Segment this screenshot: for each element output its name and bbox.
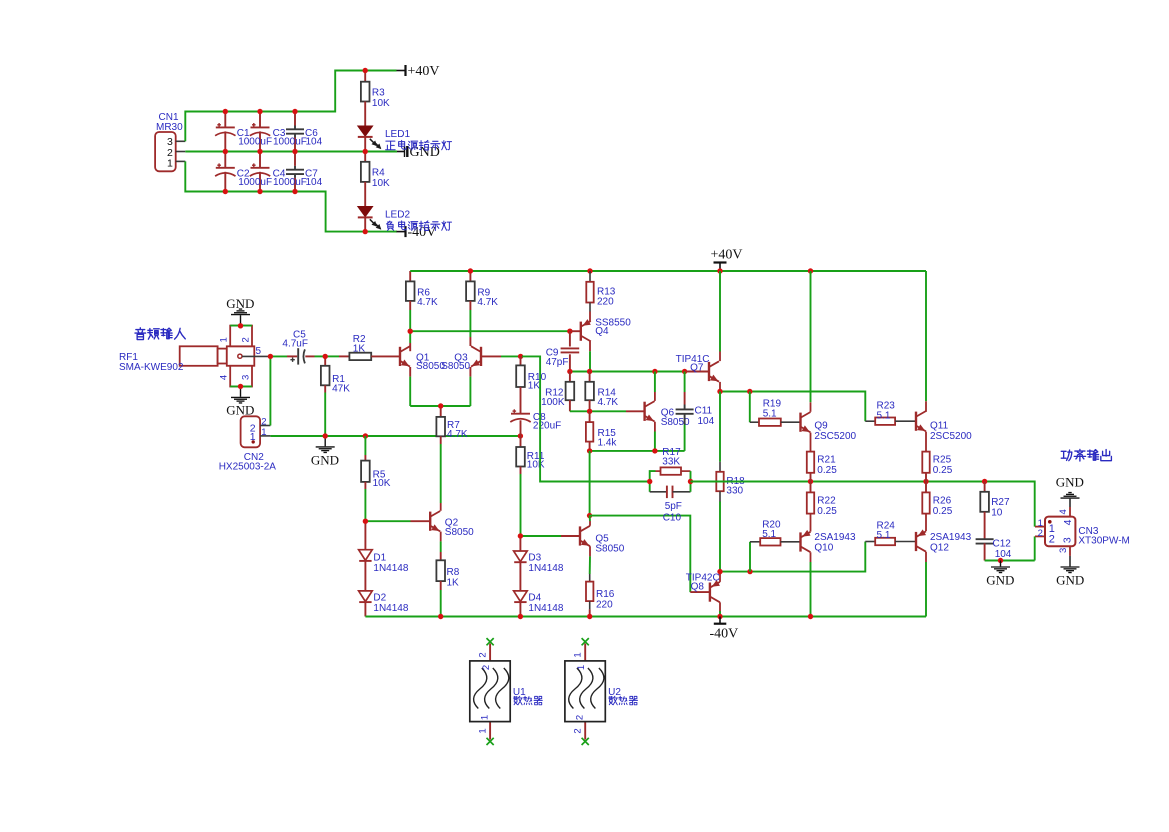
svg-text:4.7K: 4.7K [477, 297, 498, 308]
svg-text:D3: D3 [528, 552, 541, 563]
svg-text:XT30PW-M: XT30PW-M [1078, 536, 1130, 547]
svg-text:4: 4 [219, 375, 230, 380]
svg-text:0.25: 0.25 [817, 465, 837, 476]
svg-text:2SA1943: 2SA1943 [930, 532, 972, 543]
svg-text:5.1: 5.1 [762, 529, 776, 540]
svg-text:1.4k: 1.4k [598, 437, 618, 448]
svg-text:104: 104 [306, 177, 323, 188]
svg-text:0.25: 0.25 [817, 506, 837, 517]
svg-text:LED2: LED2 [385, 210, 410, 221]
svg-text:1K: 1K [447, 577, 460, 588]
svg-text:C11: C11 [695, 405, 713, 416]
svg-text:3: 3 [1061, 537, 1073, 543]
svg-text:2: 2 [573, 728, 584, 733]
svg-text:5.1: 5.1 [877, 410, 891, 421]
svg-text:2: 2 [241, 337, 252, 342]
svg-text:220: 220 [597, 296, 614, 307]
svg-text:HX25003-2A: HX25003-2A [219, 462, 277, 473]
svg-text:330: 330 [726, 486, 743, 497]
svg-text:1N4148: 1N4148 [528, 603, 563, 614]
svg-text:GND: GND [986, 573, 1014, 588]
svg-text:1: 1 [480, 715, 491, 720]
svg-text:S8050: S8050 [441, 361, 470, 372]
svg-text:1N4148: 1N4148 [373, 563, 408, 574]
svg-text:1: 1 [167, 158, 173, 170]
svg-text:D4: D4 [528, 592, 541, 603]
svg-text:C10: C10 [663, 512, 682, 523]
svg-text:10K: 10K [372, 98, 390, 109]
svg-text:Q7: Q7 [690, 362, 704, 373]
svg-text:1000uF: 1000uF [273, 177, 307, 188]
svg-text:0.25: 0.25 [933, 506, 953, 517]
svg-text:3: 3 [1058, 548, 1069, 553]
svg-text:104: 104 [698, 416, 715, 427]
svg-text:Q11: Q11 [930, 420, 949, 431]
svg-text:R25: R25 [933, 455, 952, 466]
svg-text:4.7uF: 4.7uF [282, 338, 308, 349]
svg-text:2: 2 [481, 665, 492, 670]
svg-text:R22: R22 [817, 496, 836, 507]
svg-text:Q4: Q4 [595, 326, 609, 337]
svg-text:1: 1 [261, 427, 266, 438]
svg-text:1N4148: 1N4148 [528, 563, 563, 574]
svg-text:R21: R21 [817, 455, 836, 466]
svg-text:1K: 1K [528, 381, 541, 392]
svg-text:5.1: 5.1 [763, 408, 777, 419]
svg-text:Q12: Q12 [930, 543, 949, 554]
svg-text:0.25: 0.25 [933, 465, 953, 476]
svg-text:+40V: +40V [711, 247, 743, 262]
svg-text:5: 5 [256, 346, 262, 357]
svg-text:GND: GND [311, 453, 339, 468]
svg-text:Q9: Q9 [814, 420, 828, 431]
svg-text:5.1: 5.1 [877, 530, 891, 541]
svg-text:220: 220 [596, 599, 613, 610]
svg-text:S8050: S8050 [445, 527, 474, 538]
svg-text:C12: C12 [993, 538, 1012, 549]
svg-text:S8050: S8050 [661, 417, 690, 428]
svg-text:47pF: 47pF [546, 357, 569, 368]
svg-text:220uF: 220uF [533, 421, 561, 432]
svg-text:4.7K: 4.7K [447, 429, 468, 440]
svg-text:Q10: Q10 [814, 543, 833, 554]
svg-text:R27: R27 [991, 497, 1010, 508]
svg-text:4: 4 [1058, 509, 1069, 514]
svg-text:104: 104 [995, 549, 1012, 560]
svg-text:3: 3 [241, 375, 252, 380]
svg-text:R26: R26 [933, 496, 952, 507]
svg-text:LED1: LED1 [385, 129, 410, 140]
svg-text:1: 1 [478, 728, 489, 733]
svg-text:1N4148: 1N4148 [373, 603, 408, 614]
svg-text:2: 2 [1049, 534, 1055, 546]
svg-text:10K: 10K [373, 478, 391, 489]
svg-text:1000uF: 1000uF [238, 137, 272, 148]
svg-text:33K: 33K [662, 457, 680, 468]
svg-text:4.7K: 4.7K [598, 397, 619, 408]
svg-text:10K: 10K [527, 460, 545, 471]
svg-text:MR30: MR30 [156, 122, 183, 133]
svg-text:4.7K: 4.7K [417, 297, 438, 308]
svg-text:1K: 1K [353, 344, 366, 355]
svg-text:4: 4 [1062, 519, 1074, 525]
svg-text:R16: R16 [596, 589, 615, 600]
svg-text:2: 2 [1038, 528, 1043, 539]
svg-text:2: 2 [478, 652, 489, 657]
svg-text:1: 1 [573, 652, 584, 657]
svg-text:5pF: 5pF [665, 501, 682, 512]
svg-text:104: 104 [306, 137, 323, 148]
svg-text:GND: GND [226, 296, 254, 311]
svg-text:Q8: Q8 [691, 582, 705, 593]
svg-text:2: 2 [575, 715, 586, 720]
svg-text:1000uF: 1000uF [238, 177, 272, 188]
svg-text:GND: GND [1056, 475, 1084, 490]
svg-text:S8050: S8050 [595, 544, 624, 555]
svg-text:1: 1 [219, 337, 230, 342]
svg-text:1000uF: 1000uF [273, 137, 307, 148]
svg-text:100K: 100K [541, 397, 565, 408]
svg-text:GND: GND [1056, 573, 1084, 588]
svg-text:+40V: +40V [408, 64, 440, 79]
svg-text:-40V: -40V [710, 627, 739, 642]
svg-text:47K: 47K [332, 384, 350, 395]
svg-text:2SC5200: 2SC5200 [930, 431, 972, 442]
svg-text:D1: D1 [373, 552, 386, 563]
svg-text:10: 10 [991, 507, 1003, 518]
svg-text:2SA1943: 2SA1943 [814, 532, 856, 543]
svg-text:SMA-KWE902: SMA-KWE902 [119, 362, 184, 373]
svg-text:1: 1 [576, 665, 587, 670]
svg-text:GND: GND [226, 402, 254, 417]
svg-text:D2: D2 [373, 592, 386, 603]
svg-text:2SC5200: 2SC5200 [814, 431, 856, 442]
svg-text:10K: 10K [372, 178, 390, 189]
